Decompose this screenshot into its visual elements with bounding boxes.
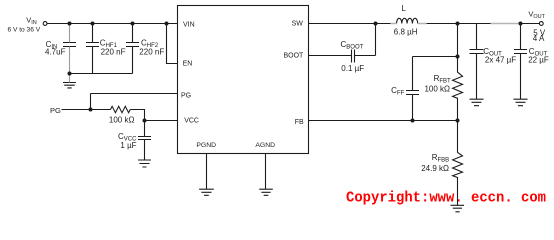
svg-text:VCC: VCC bbox=[184, 118, 199, 125]
svg-text:VOUT: VOUT bbox=[528, 10, 545, 21]
svg-text:Copyright:www. eccn. com: Copyright:www. eccn. com bbox=[346, 190, 546, 207]
svg-text:SW: SW bbox=[292, 21, 304, 28]
svg-text:RFBB: RFBB bbox=[432, 153, 449, 164]
svg-text:100 kΩ: 100 kΩ bbox=[424, 85, 450, 94]
svg-text:4.7uF: 4.7uF bbox=[45, 47, 66, 56]
svg-text:2x 47 µF: 2x 47 µF bbox=[485, 55, 516, 64]
svg-text:L: L bbox=[402, 4, 407, 13]
svg-text:EN: EN bbox=[183, 61, 193, 68]
svg-text:VIN: VIN bbox=[183, 22, 195, 29]
svg-text:BOOT: BOOT bbox=[283, 53, 304, 60]
svg-text:6.8 µH: 6.8 µH bbox=[394, 27, 418, 36]
svg-text:4 A: 4 A bbox=[533, 34, 545, 43]
svg-text:1 µF: 1 µF bbox=[120, 141, 136, 150]
svg-text:6 V to 36 V: 6 V to 36 V bbox=[8, 26, 41, 33]
svg-text:FB: FB bbox=[295, 119, 304, 126]
svg-text:CBOOT: CBOOT bbox=[341, 40, 364, 51]
svg-text:100 kΩ: 100 kΩ bbox=[109, 115, 135, 124]
svg-text:PG: PG bbox=[181, 92, 191, 99]
svg-text:PG: PG bbox=[50, 106, 61, 115]
svg-text:220 nF: 220 nF bbox=[139, 48, 164, 57]
svg-text:RFBT: RFBT bbox=[434, 74, 451, 85]
svg-text:PGND: PGND bbox=[196, 142, 216, 149]
svg-text:0.1 µF: 0.1 µF bbox=[341, 64, 364, 73]
svg-text:CFF: CFF bbox=[391, 86, 404, 97]
svg-text:24.9 kΩ: 24.9 kΩ bbox=[421, 164, 449, 173]
svg-text:VIN: VIN bbox=[26, 16, 37, 27]
svg-text:22 µF: 22 µF bbox=[528, 55, 549, 64]
svg-text:AGND: AGND bbox=[255, 142, 275, 149]
svg-text:220 nF: 220 nF bbox=[101, 48, 126, 57]
